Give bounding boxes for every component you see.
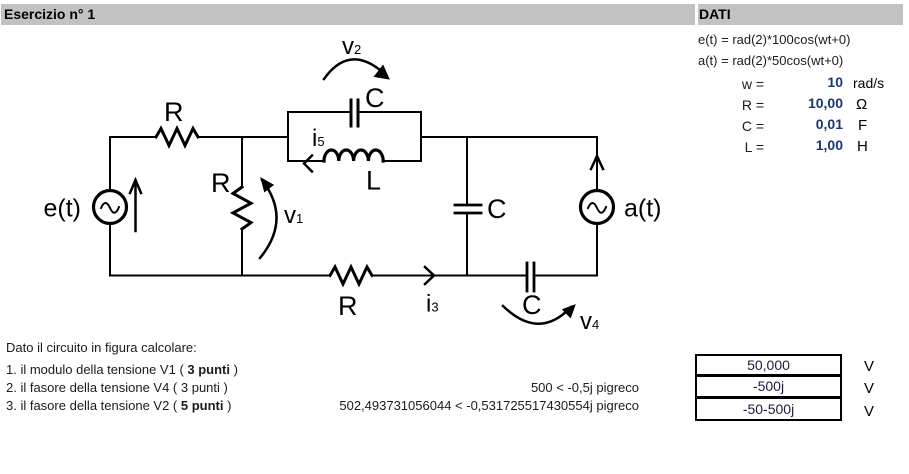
- arrow i3 on bottom wire: [425, 267, 434, 284]
- capacitor C middle plates: [455, 205, 481, 213]
- wire right vertical upper: [596, 137, 598, 191]
- arrow v2 arc: [324, 59, 389, 79]
- header bar Esercizio: [1, 4, 695, 25]
- arrow current direction a(t): [591, 156, 603, 169]
- value label e(t) formula: [698, 32, 850, 47]
- resistor R bottom (zigzag): [330, 267, 372, 284]
- wire bottom horizontal left: [110, 275, 330, 277]
- svg-text:e(t): e(t): [44, 195, 82, 223]
- unit ohm: [856, 96, 867, 113]
- arrow v1 arc: [260, 178, 277, 258]
- wire middle vertical upper: [241, 137, 243, 187]
- LC box top edge wires: [288, 111, 350, 113]
- LC box right edge wire: [420, 112, 422, 161]
- value R = 10,00: [763, 95, 843, 111]
- value label a(t) formula: [698, 53, 843, 68]
- wire top-left horizontal (source to R): [110, 136, 156, 138]
- wire C branch upper: [466, 137, 468, 204]
- unit V row2: [864, 380, 874, 397]
- svg-text:a(t): a(t): [624, 195, 662, 223]
- wire left vertical upper: [109, 137, 111, 191]
- arrow v4 arc: [503, 305, 575, 324]
- unit H: [857, 138, 868, 155]
- svg-text:L: L: [366, 166, 381, 196]
- inductor L coils: [324, 150, 383, 161]
- value w = 10: [763, 74, 843, 90]
- arrow i5 toward inductor: [304, 156, 312, 172]
- source a(t) circle: [581, 191, 614, 224]
- svg-text:v2: v2: [342, 33, 361, 60]
- svg-text:R: R: [338, 291, 358, 321]
- svg-text:R: R: [164, 97, 184, 127]
- answer box V4: [695, 375, 842, 398]
- svg-text:C: C: [487, 194, 507, 224]
- wire bottom horizontal right: [535, 275, 597, 277]
- svg-text:C: C: [522, 290, 542, 320]
- resistor R middle vertical (zigzag): [233, 187, 251, 229]
- header bar DATI: [698, 4, 903, 25]
- value label C: [664, 118, 764, 134]
- wire top horizontal (R to LC box): [198, 136, 288, 138]
- capacitor C bottom plates: [527, 263, 534, 291]
- result text V2 phasor: [339, 398, 639, 413]
- svg-text:i5: i5: [312, 125, 325, 152]
- result text V4 phasor: [339, 380, 639, 395]
- question text: [6, 340, 197, 355]
- svg-text:v1: v1: [284, 202, 303, 229]
- LC box bottom edge wires: [288, 160, 324, 162]
- svg-text:v4: v4: [580, 308, 599, 335]
- svg-text:R: R: [211, 168, 231, 198]
- svg-text:i3: i3: [426, 291, 439, 318]
- source e(t) sine mark: [101, 203, 119, 213]
- wire C branch lower: [466, 214, 468, 276]
- unit F: [858, 117, 867, 134]
- wire mid horizontal (box to right branch): [421, 136, 597, 138]
- unit V row3: [864, 403, 874, 420]
- source a(t) sine mark: [588, 203, 606, 213]
- value C = 0,01: [763, 116, 843, 132]
- wire middle vertical lower: [241, 229, 243, 276]
- value label R: [664, 97, 764, 113]
- value L = 1,00: [763, 137, 843, 153]
- unit V row1: [864, 358, 874, 375]
- unit rad/s: [853, 75, 884, 91]
- resistor R top (zigzag): [156, 129, 198, 146]
- wire right vertical lower: [596, 223, 598, 276]
- wire left vertical lower: [109, 223, 111, 276]
- value label w: [664, 76, 764, 92]
- arrow current direction e(t): [130, 180, 141, 231]
- answer box V2: [695, 397, 842, 421]
- answer box V1: [695, 354, 842, 376]
- svg-text:C: C: [365, 83, 385, 113]
- capacitor C top plates: [351, 100, 358, 126]
- value label L: [664, 139, 764, 155]
- source e(t) circle: [94, 191, 127, 224]
- LC box left edge wire: [287, 112, 289, 161]
- wire bottom horizontal mid: [372, 275, 526, 277]
